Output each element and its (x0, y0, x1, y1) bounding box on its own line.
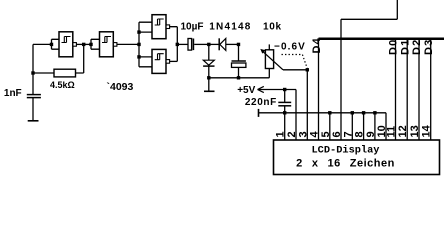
wire gate1 output (76, 43, 91, 45)
svg-text:10k: 10k (263, 22, 282, 33)
svg-text:11: 11 (386, 126, 398, 138)
LCD display box (274, 140, 440, 175)
capacitor C3 reservoir electrolytic (238, 44, 240, 61)
dotted leader line (282, 55, 308, 69)
wire pin 13 from bus (418, 40, 420, 140)
junction dot wiper to pin3 (306, 68, 309, 71)
svg-text:+5V: +5V (237, 85, 255, 96)
wire pin 14 from bus (430, 40, 432, 140)
svg-text:LCD-Display: LCD-Display (312, 144, 380, 156)
op-amp U1A schmitt gate box (59, 32, 73, 57)
svg-text:D3: D3 (423, 39, 435, 55)
ground C1 (28, 120, 39, 122)
wire pin 1 VSS (284, 113, 286, 140)
inverter bubble U1A (73, 43, 77, 47)
wire feedback drop (76, 44, 84, 73)
node gate2 input tie (91, 39, 100, 49)
svg-text:3: 3 (297, 131, 309, 137)
wire pin 2 VDD (295, 90, 297, 141)
junction dot +5V cap (283, 88, 286, 91)
junction dot at gate1 input (50, 43, 53, 46)
wire D1 to node B (226, 43, 239, 45)
svg-text:13: 13 (409, 125, 421, 137)
wire pin 12 from bus (406, 40, 408, 140)
junction dot node A (207, 43, 210, 46)
wire gate4 output (169, 60, 177, 62)
junction dot bottom node A (207, 76, 210, 79)
svg-text:1nF: 1nF (4, 88, 22, 99)
wire pin 8 D1 (363, 113, 365, 140)
svg-text:6: 6 (331, 131, 343, 137)
hysteresis symbol U1D (155, 54, 164, 60)
svg-text:220nF: 220nF (245, 97, 277, 108)
svg-text:D4: D4 (311, 37, 323, 53)
wire pin 5 RW (329, 113, 331, 140)
potentiometer P1 10k (268, 44, 270, 49)
junction dot node B (237, 43, 240, 46)
junction dot rail pin5 (328, 111, 331, 114)
wire to C2 (177, 43, 188, 45)
hysteresis symbol U1A (62, 37, 71, 43)
capacitor C4 220nF (284, 90, 286, 102)
arrow +5V (258, 86, 297, 92)
wire parallel gates input tie column (138, 22, 140, 67)
junction dot parallel output (176, 43, 179, 46)
wire gate3 input pins (139, 22, 152, 32)
junction dot bottom node B (237, 76, 240, 79)
wire input column (32, 44, 34, 94)
svg-text:8: 8 (354, 131, 366, 137)
bus D4-D7 thick (319, 38, 444, 41)
svg-text:1: 1 (275, 131, 287, 137)
svg-text:4: 4 (309, 131, 321, 138)
hysteresis symbol U1C (155, 19, 164, 25)
wiper arrow P1 (262, 50, 308, 70)
diode D1 triangle (220, 38, 226, 50)
resistor R1 4.5k (54, 69, 76, 77)
junction dot gate1 output node (82, 43, 85, 46)
capacitor C1 1nF (27, 94, 41, 96)
wire pin 6 E to top edge (341, 0, 397, 140)
node A1 input tie (52, 39, 60, 49)
svg-text:12: 12 (397, 125, 409, 137)
wire pin 7 D0 (351, 113, 353, 140)
svg-text:5: 5 (320, 131, 332, 137)
junction dot rail pin8 (362, 111, 365, 114)
junction dot tie lower (137, 55, 140, 58)
junction dot tie mid (137, 43, 140, 46)
op-amp U1B schmitt gate box (100, 32, 114, 57)
ground rail terminal (258, 109, 260, 117)
op-amp U1D schmitt gate box (152, 49, 166, 73)
inverter bubble U1C (166, 25, 170, 29)
bottom wire node A to pot (209, 77, 269, 79)
svg-text:10µF: 10µF (181, 22, 204, 33)
svg-text:7: 7 (342, 131, 354, 137)
hysteresis symbol U1B (102, 37, 111, 43)
op-amp U1C schmitt gate box (152, 15, 166, 39)
wire gate2 output (117, 43, 139, 45)
junction dot gate2 input (89, 43, 92, 46)
svg-text:−0.6V: −0.6V (274, 42, 306, 53)
capacitor C2 10uF electrolytic (188, 39, 192, 51)
diode D2 clamp vertical (208, 44, 210, 60)
junction dot rail pin1 (283, 111, 286, 114)
wire gate3 output (169, 27, 177, 62)
svg-text:`4093: `4093 (107, 81, 134, 93)
inverter bubble U1B (113, 43, 117, 47)
svg-text:2 x 16 Zeichen: 2 x 16 Zeichen (296, 158, 395, 170)
junction dot tie upper (137, 30, 140, 33)
wire resistor to input node (33, 72, 54, 74)
svg-text:4.5kΩ: 4.5kΩ (50, 80, 75, 90)
wire pin 11 from bus (395, 40, 397, 140)
wire pin 9 D2 (374, 113, 376, 140)
inverter bubble U1D (166, 60, 170, 64)
svg-text:14: 14 (421, 124, 433, 137)
junction dot rail pin9 (373, 111, 376, 114)
svg-text:D2: D2 (411, 39, 423, 55)
ground rail (259, 113, 387, 140)
svg-text:D0: D0 (388, 39, 400, 55)
svg-text:D1: D1 (399, 39, 411, 55)
wire input node to gate U1A (33, 43, 52, 45)
svg-text:1N4148: 1N4148 (209, 22, 251, 33)
ground node A (208, 78, 210, 91)
junction dot rail pin7 (351, 111, 354, 114)
svg-text:2: 2 (286, 131, 298, 137)
diode D1 1N4148 cathode bar (218, 38, 220, 50)
wire pin 3 contrast (306, 70, 308, 140)
wire pin 4 RS from bus (318, 39, 320, 140)
wire gate4 input pins (139, 57, 152, 67)
wire node A to D1 (209, 43, 219, 45)
junction dot resistor left (31, 71, 34, 74)
